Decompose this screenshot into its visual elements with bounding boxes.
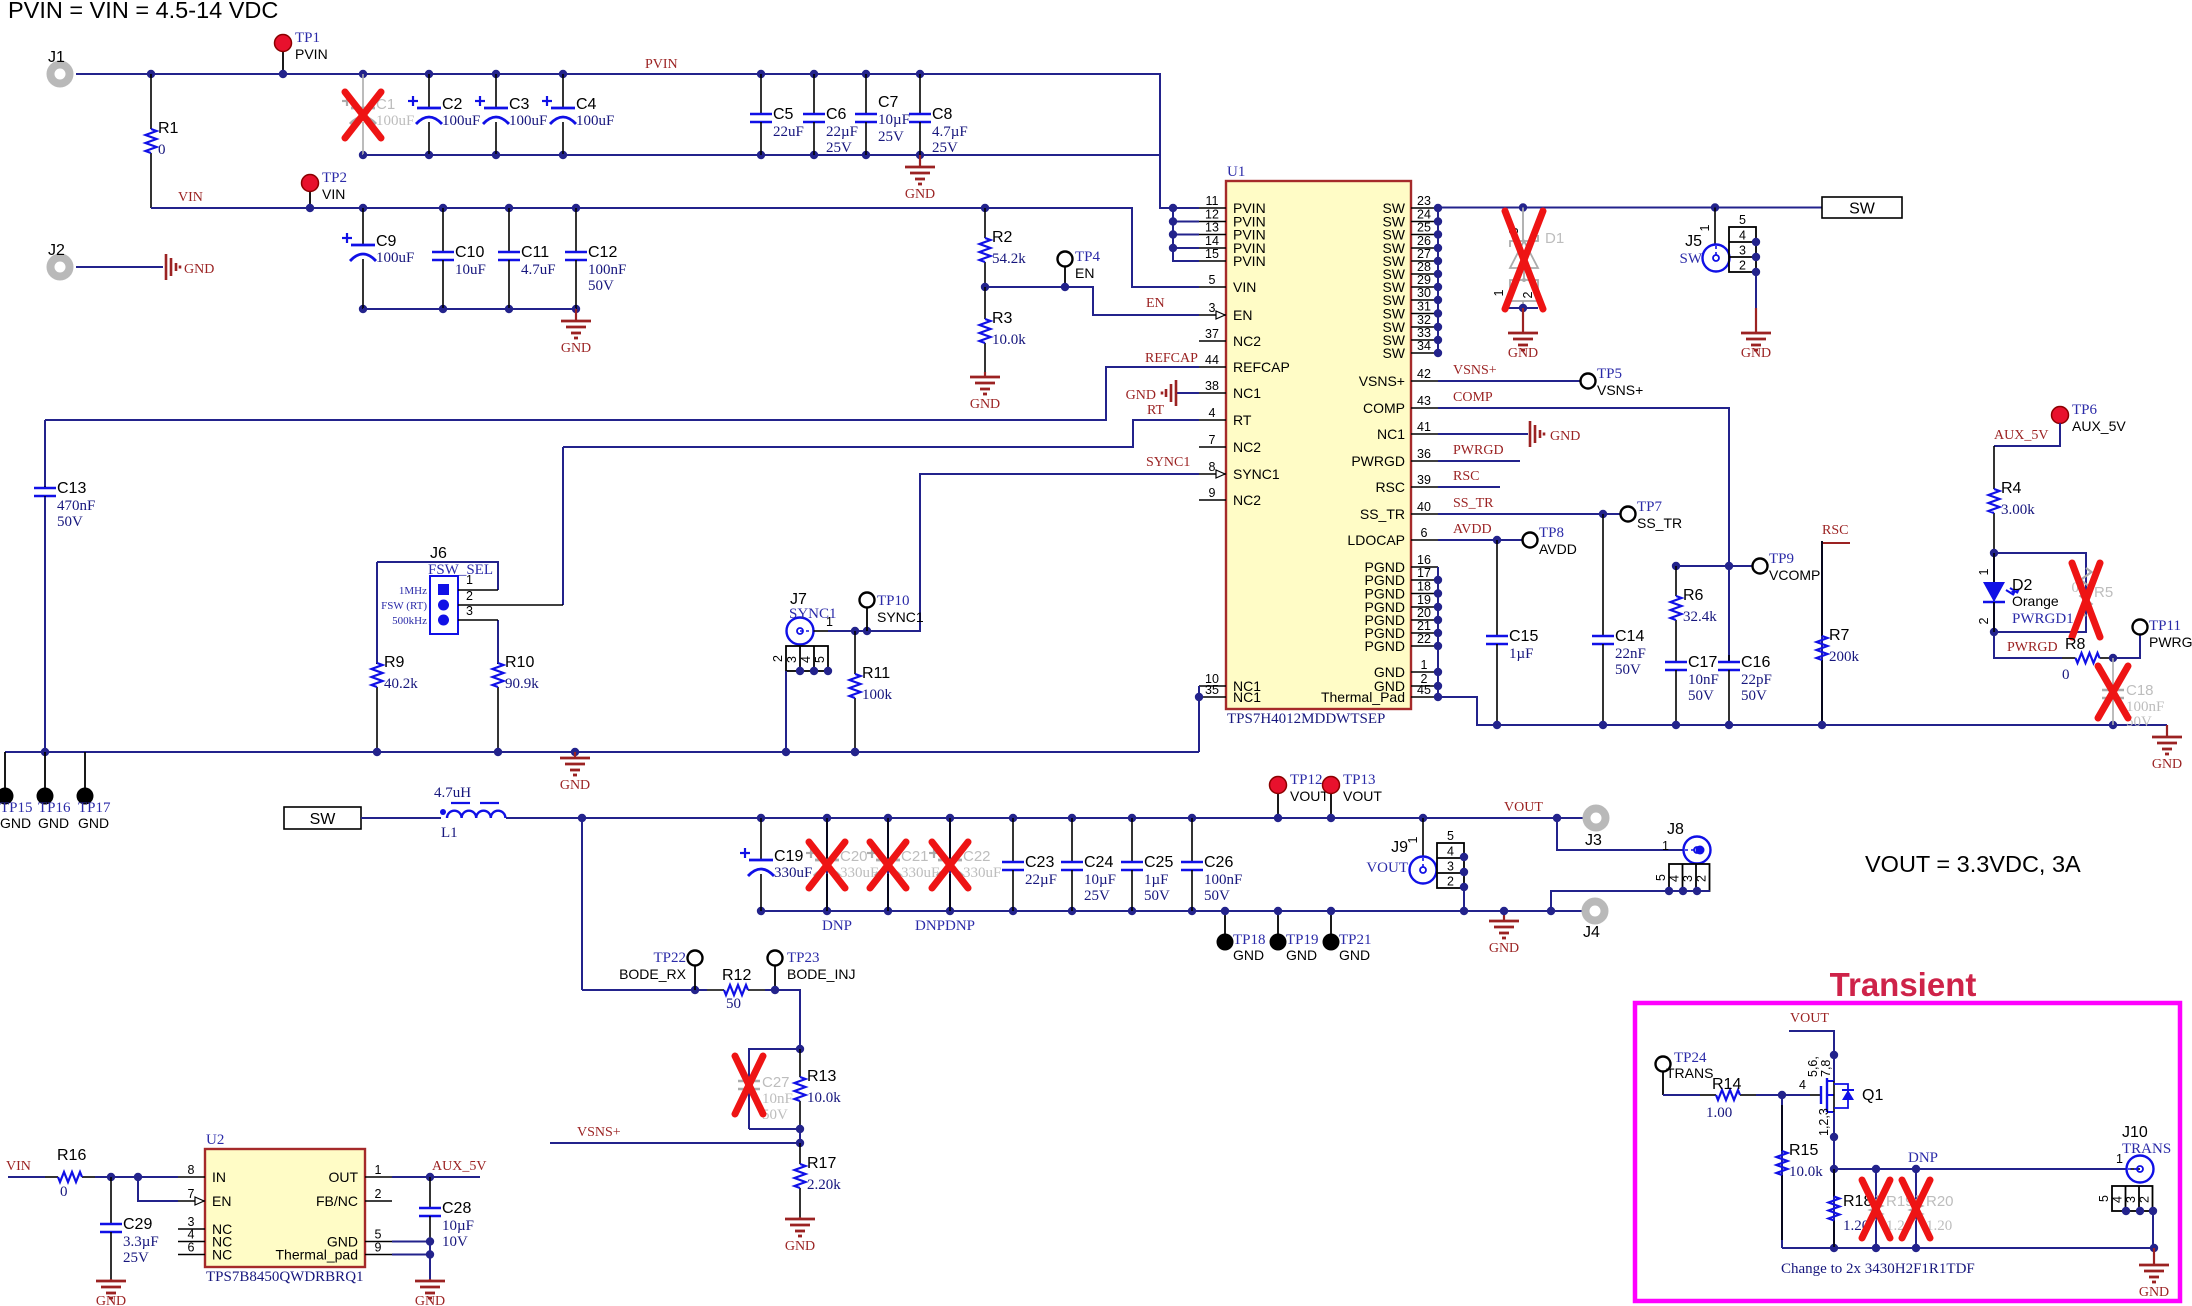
svg-text:VCOMP: VCOMP [1769,567,1820,583]
svg-text:TP19: TP19 [1286,932,1319,948]
svg-text:50V: 50V [57,514,83,530]
svg-text:R14: R14 [1712,1076,1741,1093]
svg-text:TP15: TP15 [0,800,33,816]
svg-text:22µF: 22µF [1025,872,1057,888]
svg-text:10nF: 10nF [762,1091,793,1107]
svg-text:54.2k: 54.2k [992,251,1026,267]
svg-text:9: 9 [375,1241,382,1255]
svg-text:GND: GND [38,815,69,831]
svg-text:6: 6 [188,1241,195,1255]
svg-text:C23: C23 [1025,854,1054,871]
svg-text:Change to 2x 3430H2F1R1TDF: Change to 2x 3430H2F1R1TDF [1781,1261,1975,1277]
svg-text:1: 1 [1421,658,1428,672]
svg-text:R20: R20 [1926,1193,1954,1210]
svg-text:LDOCAP: LDOCAP [1347,532,1405,548]
svg-text:470nF: 470nF [57,498,95,514]
svg-text:25V: 25V [932,140,958,156]
svg-text:SW: SW [1849,201,1876,218]
svg-text:13: 13 [1205,221,1219,235]
svg-text:8: 8 [188,1163,195,1177]
svg-text:3: 3 [785,656,799,663]
svg-text:4: 4 [188,1228,195,1242]
svg-text:GND: GND [2139,1285,2169,1300]
svg-text:Thermal_Pad: Thermal_Pad [1321,689,1405,705]
svg-text:5: 5 [813,656,827,663]
svg-text:BODE_INJ: BODE_INJ [787,966,855,982]
svg-text:TP2: TP2 [322,170,347,186]
svg-text:TP17: TP17 [78,800,111,816]
svg-text:TP6: TP6 [2072,402,2098,418]
svg-text:VOUT: VOUT [1790,1011,1829,1026]
svg-text:330uF: 330uF [963,865,1001,881]
svg-text:50V: 50V [1688,688,1714,704]
svg-text:R1: R1 [158,120,179,137]
svg-text:39: 39 [1417,473,1431,487]
svg-text:25: 25 [1417,221,1431,235]
svg-text:45: 45 [1417,683,1431,697]
svg-text:50V: 50V [1615,662,1641,678]
svg-text:AUX_5V: AUX_5V [432,1159,486,1174]
svg-text:R5: R5 [2094,584,2113,601]
svg-text:VIN: VIN [178,190,203,205]
svg-text:15: 15 [1205,247,1219,261]
svg-text:GND: GND [1126,388,1156,403]
svg-text:VOUT: VOUT [1290,788,1329,804]
svg-text:5: 5 [1447,829,1454,843]
svg-text:100nF: 100nF [1204,872,1242,888]
svg-text:16: 16 [1417,553,1431,567]
svg-text:C6: C6 [826,106,847,123]
svg-text:C13: C13 [57,480,86,497]
svg-text:2: 2 [771,655,785,662]
svg-text:RT: RT [1147,403,1164,418]
svg-text:4: 4 [1799,1078,1806,1092]
svg-text:28: 28 [1417,260,1431,274]
svg-text:0: 0 [60,1184,68,1200]
svg-text:R15: R15 [1789,1142,1818,1159]
svg-text:GND: GND [1508,346,1538,361]
svg-text:1µF: 1µF [1144,872,1169,888]
svg-text:GND: GND [1489,941,1519,956]
svg-text:C24: C24 [1084,854,1113,871]
svg-text:2: 2 [466,589,473,603]
svg-text:C8: C8 [932,106,953,123]
svg-text:10uF: 10uF [455,262,486,278]
svg-text:4.7µF: 4.7µF [932,124,968,140]
svg-text:8: 8 [1209,460,1216,474]
svg-text:J4: J4 [1583,924,1600,941]
svg-text:VSNS+: VSNS+ [1359,373,1405,389]
svg-text:C11: C11 [521,244,549,261]
svg-text:PWRGD1: PWRGD1 [2012,611,2074,627]
svg-text:3: 3 [1447,860,1454,874]
svg-text:C20: C20 [840,848,868,865]
svg-text:C22: C22 [963,848,991,865]
svg-text:FB/NC: FB/NC [316,1193,358,1209]
svg-text:3.3µF: 3.3µF [123,1234,159,1250]
svg-text:EN: EN [212,1193,231,1209]
svg-text:R11: R11 [862,665,890,682]
svg-text:10V: 10V [442,1234,468,1250]
svg-text:VIN: VIN [322,186,345,202]
svg-text:AUX_5V: AUX_5V [1994,428,2048,443]
svg-text:C27: C27 [762,1074,790,1091]
svg-text:GND: GND [415,1294,445,1306]
svg-text:SS_TR: SS_TR [1360,506,1405,522]
svg-text:SS_TR: SS_TR [1453,496,1494,511]
svg-text:PVIN = VIN = 4.5-14 VDC: PVIN = VIN = 4.5-14 VDC [8,0,278,23]
svg-text:RSC: RSC [1375,479,1405,495]
svg-text:FSW_SEL: FSW_SEL [428,562,493,578]
svg-text:GND: GND [0,815,31,831]
svg-text:10µF: 10µF [1084,872,1116,888]
svg-text:GND: GND [1550,429,1580,444]
svg-text:EN: EN [1075,265,1094,281]
svg-text:25V: 25V [878,129,904,145]
svg-text:AVDD: AVDD [1453,522,1492,537]
svg-text:NC1: NC1 [1377,426,1405,442]
svg-text:SW: SW [1680,251,1703,267]
svg-text:43: 43 [1417,394,1431,408]
svg-text:VSNS+: VSNS+ [577,1125,621,1140]
svg-text:22µF: 22µF [826,124,858,140]
svg-text:14: 14 [1205,234,1219,248]
svg-text:C25: C25 [1144,854,1173,871]
svg-text:1: 1 [1698,224,1712,231]
svg-text:U1: U1 [1227,164,1245,180]
svg-text:EN: EN [1146,296,1165,311]
svg-text:PWRGD: PWRGD [1453,443,1504,458]
svg-text:C21: C21 [901,848,929,865]
svg-text:7: 7 [188,1187,195,1201]
svg-text:GND: GND [905,187,935,202]
svg-text:3: 3 [1739,244,1746,258]
svg-text:R6: R6 [1683,587,1704,604]
svg-text:J3: J3 [1585,832,1602,849]
svg-text:J9: J9 [1391,839,1408,856]
svg-text:R13: R13 [807,1068,836,1085]
svg-text:C28: C28 [442,1200,471,1217]
svg-text:GND: GND [2152,757,2182,772]
svg-text:40: 40 [1417,500,1431,514]
svg-text:50V: 50V [1144,888,1170,904]
svg-text:AUX_5V: AUX_5V [2072,418,2126,434]
svg-text:PWRGD: PWRGD [2007,640,2058,655]
svg-text:9: 9 [1209,486,1216,500]
svg-text:C7: C7 [878,94,899,111]
svg-text:4.7uF: 4.7uF [521,262,556,278]
svg-text:COMP: COMP [1363,400,1405,416]
svg-text:GND: GND [970,397,1000,412]
svg-text:GND: GND [1741,346,1771,361]
svg-text:GND: GND [96,1294,126,1306]
svg-text:330uF: 330uF [774,865,812,881]
svg-text:R8: R8 [2065,636,2086,653]
svg-text:3: 3 [1209,301,1216,315]
svg-text:FSW (RT): FSW (RT) [381,600,427,612]
svg-text:2.20k: 2.20k [807,1177,841,1193]
svg-text:VSNS+: VSNS+ [1597,382,1643,398]
svg-text:C12: C12 [588,244,617,261]
svg-text:L1: L1 [441,825,458,841]
svg-text:REFCAP: REFCAP [1233,359,1290,375]
svg-text:TP23: TP23 [787,950,820,966]
svg-text:22pF: 22pF [1741,672,1772,688]
svg-text:GND: GND [561,341,591,356]
svg-text:RSC: RSC [1822,523,1848,538]
svg-text:SYNC1: SYNC1 [1146,455,1190,470]
svg-text:C5: C5 [773,106,794,123]
svg-text:GND: GND [785,1239,815,1254]
svg-text:2: 2 [1977,617,1991,624]
svg-text:TP8: TP8 [1539,525,1564,541]
svg-text:R17: R17 [807,1155,836,1172]
svg-text:R7: R7 [1829,627,1850,644]
svg-text:DNPDNP: DNPDNP [915,918,975,934]
svg-text:VOUT: VOUT [1504,800,1543,815]
svg-text:10nF: 10nF [1688,672,1719,688]
svg-text:24: 24 [1417,208,1431,222]
svg-text:34: 34 [1417,339,1431,353]
svg-text:90.9k: 90.9k [505,676,539,692]
svg-text:11: 11 [1206,194,1219,208]
svg-text:C19: C19 [774,848,803,865]
svg-text:2: 2 [1447,875,1454,889]
svg-text:C4: C4 [576,96,597,113]
svg-text:PVIN: PVIN [645,57,678,72]
svg-text:SYNC1: SYNC1 [789,606,837,622]
svg-text:1.00: 1.00 [1706,1105,1732,1121]
svg-text:35: 35 [1205,683,1219,697]
svg-text:REFCAP: REFCAP [1145,351,1198,366]
svg-text:4: 4 [2111,1196,2125,1203]
svg-text:10µF: 10µF [878,112,910,128]
svg-text:50V: 50V [1204,888,1230,904]
svg-text:TP5: TP5 [1597,366,1622,382]
svg-text:25V: 25V [826,140,852,156]
svg-text:1µF: 1µF [1509,646,1534,662]
svg-text:C16: C16 [1741,654,1770,671]
svg-text:TP12: TP12 [1290,772,1323,788]
svg-text:J1: J1 [48,49,65,66]
svg-text:GND: GND [184,262,214,277]
svg-text:C10: C10 [455,244,484,261]
svg-text:5: 5 [1654,874,1668,881]
svg-text:3.00k: 3.00k [2001,502,2035,518]
svg-text:2: 2 [1739,259,1746,273]
svg-text:41: 41 [1417,420,1431,434]
svg-text:40.2k: 40.2k [384,676,418,692]
svg-text:29: 29 [1417,273,1431,287]
svg-text:32.4k: 32.4k [1683,609,1717,625]
svg-text:NC: NC [212,1247,232,1263]
svg-text:TP24: TP24 [1674,1050,1707,1066]
svg-text:3: 3 [2124,1196,2138,1203]
svg-text:SYNC1: SYNC1 [1233,466,1280,482]
svg-text:C2: C2 [442,96,463,113]
svg-text:26: 26 [1417,234,1431,248]
svg-text:330uF: 330uF [901,865,939,881]
svg-text:C3: C3 [509,96,530,113]
svg-text:2: 2 [2138,1196,2152,1203]
svg-text:5: 5 [1209,273,1216,287]
svg-text:0: 0 [2062,667,2070,683]
svg-text:R9: R9 [384,654,405,671]
svg-text:25V: 25V [123,1250,149,1266]
svg-text:22nF: 22nF [1615,646,1646,662]
svg-text:TP18: TP18 [1233,932,1266,948]
svg-text:DNP: DNP [1908,1150,1938,1166]
svg-text:200k: 200k [1829,649,1860,665]
svg-text:GND: GND [1233,947,1264,963]
svg-text:TRANS: TRANS [2122,1141,2171,1157]
svg-text:COMP: COMP [1453,390,1493,405]
svg-text:100uF: 100uF [442,113,480,129]
svg-text:VIN: VIN [6,1159,31,1174]
svg-text:10µF: 10µF [442,1218,474,1234]
svg-text:C26: C26 [1204,854,1233,871]
svg-text:5: 5 [375,1228,382,1242]
svg-text:TPS7H4012MDDWTSEP: TPS7H4012MDDWTSEP [1227,711,1385,727]
svg-text:Transient: Transient [1830,966,1977,1003]
svg-text:19: 19 [1417,593,1431,607]
svg-text:37: 37 [1205,327,1219,341]
svg-text:R4: R4 [2001,480,2022,497]
svg-text:IN: IN [212,1169,226,1185]
svg-text:42: 42 [1417,367,1431,381]
svg-text:Orange: Orange [2012,593,2059,609]
svg-text:NC2: NC2 [1233,333,1261,349]
svg-text:30: 30 [1417,286,1431,300]
svg-text:J2: J2 [48,242,65,259]
svg-text:1: 1 [375,1163,382,1177]
svg-text:R3: R3 [992,310,1013,327]
svg-text:10.0k: 10.0k [807,1090,841,1106]
svg-text:TP9: TP9 [1769,551,1794,567]
svg-text:C18: C18 [2126,682,2154,699]
svg-text:PWRGD: PWRGD [1351,453,1405,469]
svg-text:GND: GND [1339,947,1370,963]
svg-text:R16: R16 [57,1147,86,1164]
svg-text:TP22: TP22 [653,950,686,966]
svg-text:31: 31 [1417,300,1431,314]
svg-text:21: 21 [1417,619,1431,633]
svg-text:U2: U2 [206,1132,224,1148]
svg-text:TP4: TP4 [1075,249,1101,265]
svg-text:27: 27 [1417,247,1431,261]
svg-text:2: 2 [375,1187,382,1201]
svg-text:4: 4 [1447,845,1454,859]
svg-text:10.0k: 10.0k [1789,1164,1823,1180]
svg-text:SS_TR: SS_TR [1637,515,1682,531]
svg-text:J8: J8 [1667,821,1684,838]
svg-text:4: 4 [1668,875,1682,882]
svg-text:4.7uH: 4.7uH [434,785,471,801]
svg-text:RT: RT [1233,412,1252,428]
svg-text:R10: R10 [505,654,534,671]
svg-text:D2: D2 [2012,577,2033,594]
svg-text:PVIN: PVIN [295,46,328,62]
svg-text:17: 17 [1417,566,1431,580]
svg-text:100nF: 100nF [588,262,626,278]
svg-text:1: 1 [1662,839,1669,853]
svg-text:C14: C14 [1615,628,1644,645]
svg-text:TP11: TP11 [2149,618,2181,634]
svg-text:38: 38 [1205,379,1219,393]
svg-text:EN: EN [1233,307,1252,323]
svg-text:OUT: OUT [328,1169,358,1185]
svg-text:7,8: 7,8 [1819,1060,1833,1077]
svg-text:VOUT: VOUT [1366,860,1408,876]
svg-text:TP7: TP7 [1637,499,1663,515]
svg-text:TPS7B8450QWDRBRQ1: TPS7B8450QWDRBRQ1 [206,1269,364,1285]
svg-text:100nF: 100nF [2126,699,2164,715]
svg-text:1,2,3: 1,2,3 [1817,1108,1831,1136]
svg-text:GND: GND [1286,947,1317,963]
svg-text:C29: C29 [123,1216,152,1233]
svg-text:7: 7 [1209,433,1216,447]
svg-text:20: 20 [1417,606,1431,620]
svg-text:32: 32 [1417,313,1431,327]
svg-text:25V: 25V [1084,888,1110,904]
svg-text:PGND: PGND [1365,638,1405,654]
svg-text:4: 4 [1209,406,1216,420]
svg-text:R2: R2 [992,229,1013,246]
svg-text:Thermal_pad: Thermal_pad [276,1247,359,1263]
svg-text:C17: C17 [1688,654,1717,671]
svg-text:4: 4 [1739,229,1746,243]
svg-text:TP13: TP13 [1343,772,1376,788]
svg-text:100uF: 100uF [576,113,614,129]
svg-text:AVDD: AVDD [1539,541,1577,557]
svg-text:23: 23 [1417,194,1431,208]
svg-text:TP1: TP1 [295,30,320,46]
svg-text:PWRGD: PWRGD [2149,634,2192,650]
svg-text:100uF: 100uF [376,113,414,129]
svg-text:NC1: NC1 [1233,689,1261,705]
svg-text:1: 1 [1977,568,1991,575]
svg-text:J6: J6 [430,545,447,562]
svg-text:PVIN: PVIN [1233,253,1266,269]
svg-text:100uF: 100uF [376,250,414,266]
svg-text:22uF: 22uF [773,124,804,140]
svg-text:1MHz: 1MHz [399,585,427,597]
svg-text:50V: 50V [1741,688,1767,704]
svg-text:NC2: NC2 [1233,439,1261,455]
svg-text:RSC: RSC [1453,469,1479,484]
svg-text:TP10: TP10 [877,593,910,609]
svg-text:12: 12 [1205,208,1219,222]
svg-text:3: 3 [466,604,473,618]
svg-text:0: 0 [158,142,166,158]
svg-text:22: 22 [1417,632,1431,646]
svg-text:SW: SW [310,811,337,828]
svg-text:J5: J5 [1685,233,1702,250]
svg-text:18: 18 [1417,580,1431,594]
svg-text:36: 36 [1417,447,1431,461]
svg-text:DNP: DNP [822,918,852,934]
svg-text:TP21: TP21 [1339,932,1372,948]
svg-text:100uF: 100uF [509,113,547,129]
svg-text:3: 3 [1681,875,1695,882]
svg-text:VSNS+: VSNS+ [1453,363,1497,378]
svg-text:VOUT: VOUT [1343,788,1382,804]
svg-text:44: 44 [1205,353,1219,367]
svg-text:500kHz: 500kHz [392,615,427,627]
svg-text:330uF: 330uF [840,865,878,881]
svg-text:50: 50 [726,996,741,1012]
svg-text:6: 6 [1421,526,1428,540]
